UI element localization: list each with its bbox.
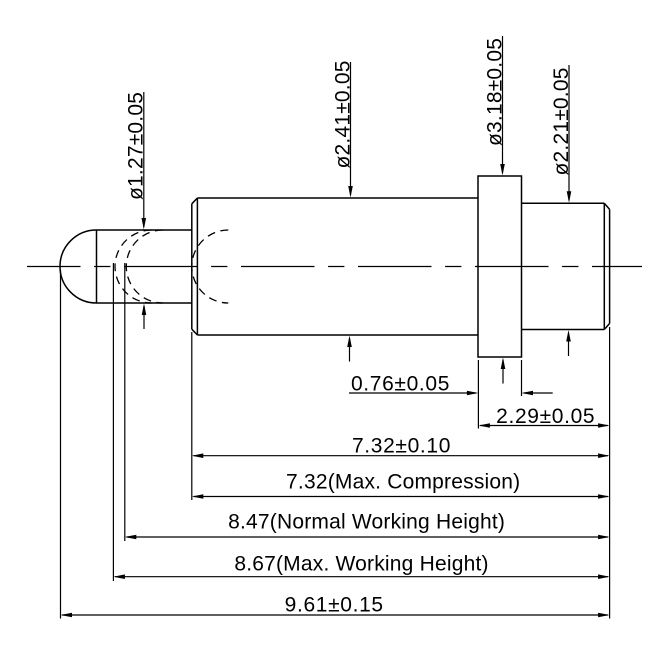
svg-text:ø1.27±0.05: ø1.27±0.05: [125, 92, 148, 200]
svg-text:7.32(Max. Compression): 7.32(Max. Compression): [286, 470, 520, 493]
svg-text:9.61±0.15: 9.61±0.15: [285, 594, 384, 617]
svg-text:0.76±0.05: 0.76±0.05: [351, 372, 450, 395]
svg-text:ø2.41±0.05: ø2.41±0.05: [331, 60, 354, 168]
svg-text:2.29±0.05: 2.29±0.05: [496, 405, 595, 428]
svg-text:8.67(Max. Working Height): 8.67(Max. Working Height): [234, 553, 488, 576]
svg-text:ø3.18±0.05: ø3.18±0.05: [484, 38, 507, 146]
svg-text:8.47(Normal Working Height): 8.47(Normal Working Height): [228, 511, 505, 534]
svg-text:ø2.21±0.05: ø2.21±0.05: [550, 67, 573, 175]
svg-text:7.32±0.10: 7.32±0.10: [352, 434, 451, 457]
